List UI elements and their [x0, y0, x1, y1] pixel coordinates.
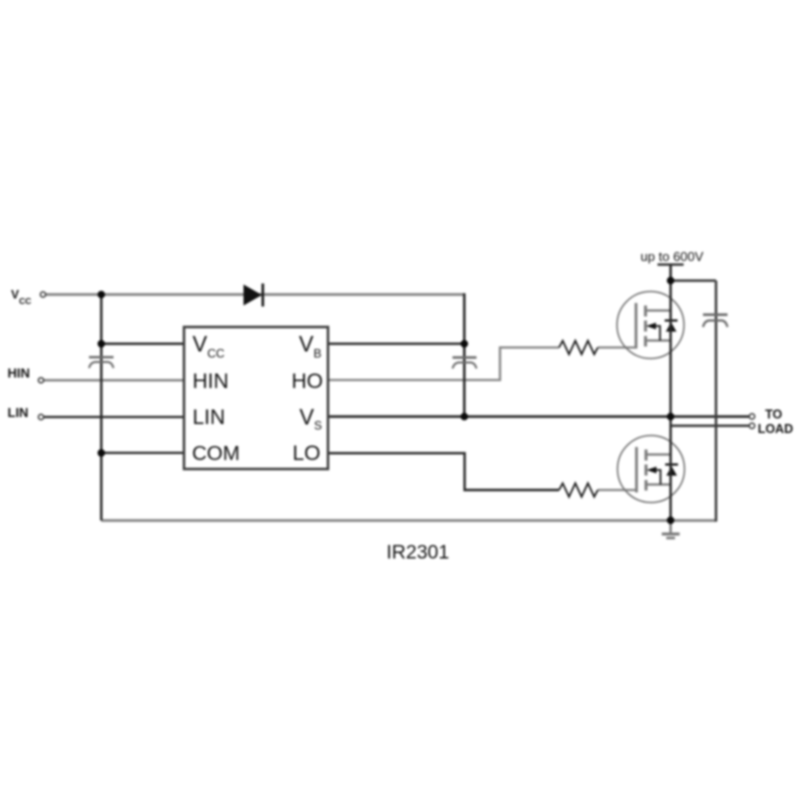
svg-text:COM: COM	[192, 442, 240, 465]
svg-text:TO: TO	[765, 407, 782, 421]
svg-text:LIN: LIN	[8, 405, 29, 420]
svg-text:HIN: HIN	[193, 370, 229, 393]
svg-text:V: V	[299, 405, 314, 430]
svg-text:LOAD: LOAD	[758, 422, 793, 436]
svg-text:B: B	[314, 347, 322, 361]
svg-text:up to 600V: up to 600V	[641, 249, 704, 264]
svg-text:S: S	[314, 419, 322, 433]
svg-text:HO: HO	[292, 370, 324, 393]
svg-text:LIN: LIN	[193, 406, 226, 429]
svg-text:LO: LO	[292, 442, 320, 465]
svg-text:IR2301: IR2301	[386, 542, 449, 564]
svg-text:HIN: HIN	[8, 365, 30, 380]
svg-text:V: V	[299, 332, 314, 357]
